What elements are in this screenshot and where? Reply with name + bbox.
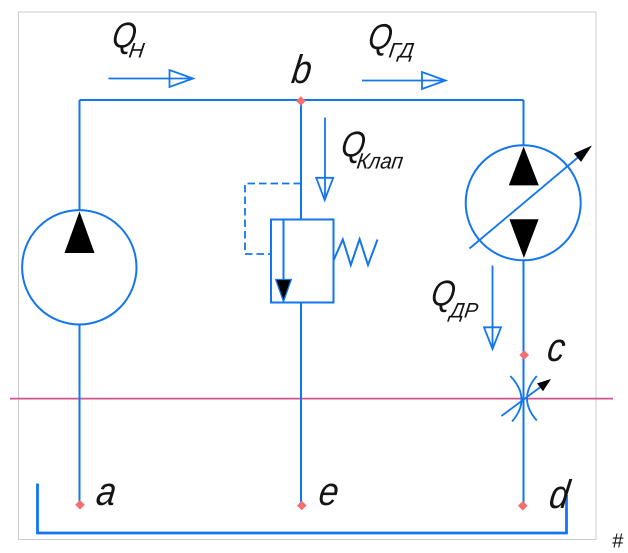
wire: right vertical down to motor xyxy=(523,100,525,146)
throttle DR1 right arc xyxy=(527,376,537,421)
svg-text:c: c xyxy=(545,325,569,370)
throttle DR1 left arc xyxy=(510,376,521,422)
node b marker xyxy=(296,96,306,106)
hydraulic motor M1 circle xyxy=(466,145,581,260)
svg-text:Н: Н xyxy=(127,40,146,63)
pump P1 circle xyxy=(22,210,136,324)
svg-text:Клап: Клап xyxy=(355,149,404,174)
node d marker xyxy=(518,501,528,511)
relief valve spring xyxy=(334,239,378,265)
throttle adjustment arrowhead xyxy=(537,379,551,391)
svg-text:e: e xyxy=(316,469,342,514)
relief valve KP1 body xyxy=(271,220,334,303)
motor lower triangle xyxy=(509,219,538,258)
motor variable arrowhead xyxy=(574,146,592,162)
wire: motor to node c and down to node d xyxy=(523,261,525,505)
throttle adjustment arrow line xyxy=(502,383,547,417)
wire: left vertical from node b line to pump xyxy=(79,100,81,211)
flow arrow QH xyxy=(109,78,192,80)
node e marker xyxy=(297,501,307,511)
tank return line xyxy=(38,484,567,534)
wire: top horizontal b line xyxy=(80,99,524,101)
relief valve pilot line (dashed) xyxy=(245,184,301,255)
relief valve flow arrowhead xyxy=(276,280,292,302)
wire: relief valve to node e xyxy=(300,303,302,504)
relief valve flow line xyxy=(283,220,285,282)
flow arrow QKlap (down) xyxy=(324,118,326,199)
motor variable-displacement arrow line xyxy=(470,149,589,249)
red reference line xyxy=(10,398,613,400)
pump P1 flow triangle xyxy=(65,212,95,254)
wire: node b down to relief valve xyxy=(300,100,302,220)
motor upper triangle xyxy=(509,147,539,186)
svg-text:d: d xyxy=(547,472,574,517)
node a marker xyxy=(75,500,85,510)
flow arrow QDR (down) xyxy=(492,266,494,348)
wire: pump to node a xyxy=(79,325,81,503)
svg-text:a: a xyxy=(94,469,120,514)
svg-text:ГД: ГД xyxy=(387,40,415,63)
svg-text:b: b xyxy=(289,47,315,92)
svg-text:ДР: ДР xyxy=(447,300,480,323)
flow arrow QGD xyxy=(362,80,444,82)
node c marker xyxy=(519,350,529,360)
svg-text:#: # xyxy=(612,531,624,553)
